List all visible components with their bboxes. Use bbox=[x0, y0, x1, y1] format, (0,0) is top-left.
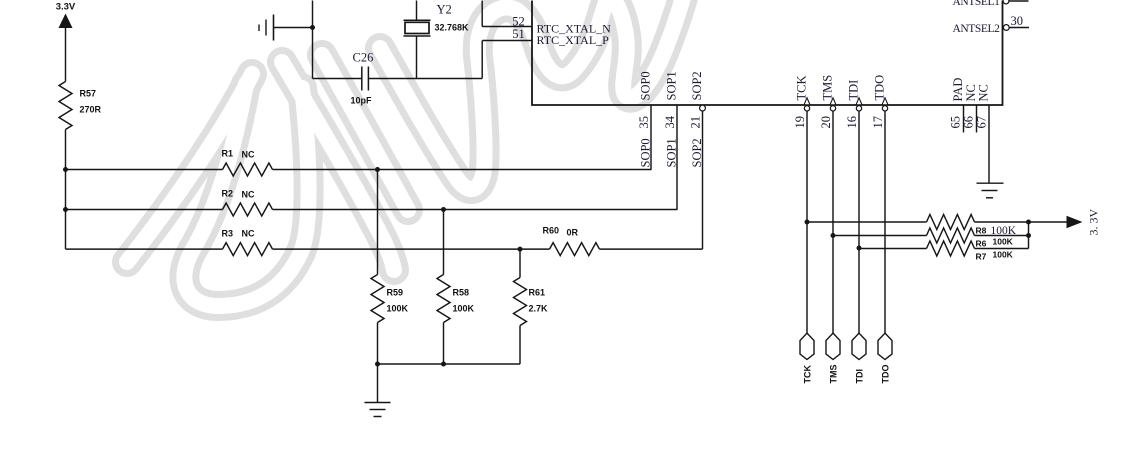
watermark bbox=[127, 0, 686, 306]
wire bbox=[65, 28, 67, 82]
connector TCK bbox=[800, 333, 814, 359]
resistor R60 bbox=[550, 243, 600, 256]
wire bbox=[273, 169, 652, 171]
svg-text:TDI: TDI bbox=[847, 80, 861, 101]
svg-text:51: 51 bbox=[512, 27, 525, 41]
svg-text:R2: R2 bbox=[222, 189, 234, 199]
resistor R1 bbox=[223, 163, 273, 176]
svg-text:PAD: PAD bbox=[951, 78, 965, 102]
pin SOP0 bbox=[650, 105, 652, 170]
svg-text:ANTSEL1: ANTSEL1 bbox=[952, 0, 1000, 8]
pin SOP1 bbox=[676, 105, 678, 210]
svg-text:TDI: TDI bbox=[855, 369, 865, 384]
pin SOP2 bbox=[700, 105, 706, 111]
svg-text:SOP0: SOP0 bbox=[639, 138, 653, 167]
resistor R8 bbox=[927, 215, 975, 230]
node bbox=[1026, 233, 1031, 238]
node R59 tap bbox=[375, 167, 380, 172]
capacitor C26 bbox=[361, 67, 363, 91]
node TCK tap bbox=[805, 220, 810, 225]
node bbox=[1026, 220, 1031, 225]
wire row3 bbox=[66, 248, 223, 250]
svg-text:21: 21 bbox=[689, 116, 703, 129]
svg-text:C26: C26 bbox=[353, 51, 374, 65]
svg-text:R8: R8 bbox=[976, 226, 987, 236]
svg-text:NC: NC bbox=[242, 190, 255, 200]
svg-text:SOP2: SOP2 bbox=[690, 71, 704, 100]
svg-text:65: 65 bbox=[949, 116, 963, 129]
svg-text:TDO: TDO bbox=[873, 75, 887, 101]
ground bbox=[977, 182, 1004, 184]
resistor R59 bbox=[377, 170, 379, 275]
svg-text:0R: 0R bbox=[567, 228, 579, 238]
wire bbox=[65, 130, 67, 250]
crystal Y2 bbox=[404, 19, 431, 21]
node R58 tap bbox=[441, 207, 446, 212]
svg-text:R61: R61 bbox=[529, 288, 546, 298]
svg-text:16: 16 bbox=[845, 116, 859, 129]
svg-text:NC: NC bbox=[977, 84, 991, 101]
node TDI tap bbox=[857, 246, 862, 251]
IC U1 body bbox=[532, 1, 1003, 106]
svg-text:RTC_XTAL_P: RTC_XTAL_P bbox=[537, 33, 610, 47]
wire row1 bbox=[66, 169, 223, 171]
resistor R58 bbox=[443, 210, 445, 275]
svg-text:SOP0: SOP0 bbox=[639, 71, 653, 100]
svg-text:R7: R7 bbox=[976, 252, 987, 262]
svg-text:R58: R58 bbox=[453, 288, 470, 298]
pin TDI bbox=[856, 98, 862, 105]
crystal Y1 vertical wires bbox=[416, 1, 418, 21]
wire R7 row bbox=[859, 248, 927, 250]
svg-text:SOP2: SOP2 bbox=[690, 138, 704, 167]
svg-text:35: 35 bbox=[637, 116, 651, 129]
svg-text:TMS: TMS bbox=[829, 365, 839, 384]
power 3.3V right bbox=[1067, 216, 1083, 229]
node row1-left bbox=[63, 167, 68, 172]
ground bbox=[377, 364, 379, 403]
svg-text:R59: R59 bbox=[387, 288, 404, 298]
node TMS tap bbox=[831, 233, 836, 238]
pin TMS bbox=[830, 98, 836, 105]
svg-text:3. 3V: 3. 3V bbox=[1087, 209, 1101, 236]
svg-text:TCK: TCK bbox=[795, 76, 809, 101]
pin TDO bbox=[882, 98, 888, 105]
resistor R2 bbox=[223, 203, 273, 216]
pin NC 67 bbox=[988, 105, 990, 183]
resistor R61 bbox=[519, 249, 521, 277]
svg-text:ANTSEL2: ANTSEL2 bbox=[952, 23, 1000, 35]
svg-text:TCK: TCK bbox=[803, 365, 813, 384]
wire RTC_XTAL_P bbox=[482, 40, 532, 42]
svg-text:100K: 100K bbox=[453, 304, 475, 314]
resistor R6 bbox=[927, 228, 975, 243]
svg-text:10pF: 10pF bbox=[351, 96, 373, 106]
resistor R3 bbox=[223, 243, 273, 256]
svg-text:R3: R3 bbox=[222, 229, 234, 239]
connector TDI bbox=[852, 333, 866, 359]
resistor R7 bbox=[927, 241, 975, 256]
svg-text:67: 67 bbox=[975, 116, 989, 129]
node row2-left bbox=[63, 207, 68, 212]
svg-text:Y2: Y2 bbox=[437, 3, 452, 17]
svg-text:32.768K: 32.768K bbox=[435, 23, 470, 33]
svg-text:30: 30 bbox=[1011, 14, 1024, 28]
svg-text:20: 20 bbox=[819, 116, 833, 129]
wire RTC_XTAL_N bbox=[481, 1, 483, 27]
svg-text:100K: 100K bbox=[993, 250, 1014, 260]
wire R8 row bbox=[807, 221, 927, 223]
pin PAD bbox=[963, 105, 965, 133]
pin NC 66 bbox=[976, 105, 978, 133]
wire bbox=[273, 209, 678, 211]
svg-text:3.3V: 3.3V bbox=[56, 2, 76, 13]
svg-text:NC: NC bbox=[242, 150, 255, 160]
node R61 tap bbox=[518, 247, 523, 252]
node ground tap bbox=[310, 25, 315, 30]
wire R6 row bbox=[833, 235, 927, 237]
wire joining rows bbox=[1028, 222, 1030, 249]
wire bottom bus bbox=[378, 363, 521, 365]
wire bbox=[600, 248, 703, 250]
wire bbox=[273, 248, 550, 250]
svg-text:100K: 100K bbox=[993, 237, 1014, 247]
svg-text:17: 17 bbox=[871, 116, 885, 129]
svg-text:SOP1: SOP1 bbox=[665, 71, 679, 100]
svg-text:R6: R6 bbox=[976, 239, 987, 249]
connector TDO bbox=[878, 333, 892, 359]
svg-text:R57: R57 bbox=[80, 89, 97, 99]
resistor R57 bbox=[59, 82, 72, 130]
svg-text:19: 19 bbox=[793, 116, 807, 129]
wire left branch bbox=[312, 1, 314, 79]
svg-text:TMS: TMS bbox=[821, 75, 835, 101]
svg-text:SOP1: SOP1 bbox=[665, 138, 679, 167]
svg-text:34: 34 bbox=[663, 115, 677, 128]
connector TMS bbox=[826, 333, 840, 359]
wire bottom of crystal bbox=[313, 78, 362, 80]
svg-text:R1: R1 bbox=[222, 149, 234, 159]
pin TCK bbox=[804, 98, 810, 105]
svg-text:R60: R60 bbox=[543, 226, 560, 236]
svg-text:TDO: TDO bbox=[881, 365, 891, 384]
svg-text:100K: 100K bbox=[387, 304, 409, 314]
wire row2 bbox=[66, 209, 223, 211]
svg-text:270R: 270R bbox=[80, 105, 102, 115]
svg-text:2.7K: 2.7K bbox=[529, 304, 549, 314]
svg-text:66: 66 bbox=[962, 116, 976, 129]
ground (rotated) bbox=[274, 27, 313, 29]
svg-text:NC: NC bbox=[242, 229, 255, 239]
wire bbox=[368, 78, 482, 80]
